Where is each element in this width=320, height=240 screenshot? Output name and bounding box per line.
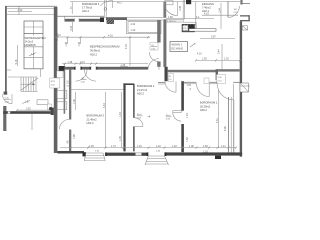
wc fixtures left <box>57 91 67 99</box>
wall: top wall step left <box>57 15 105 17</box>
wall: b4 right partition <box>104 0 106 17</box>
door arc bueroraum4 <box>101 0 113 6</box>
dim 4.33 rot <box>129 37 131 66</box>
wall: vestibule bottom wall segments <box>184 81 197 83</box>
dim rot 4.31 b1 <box>218 90 220 148</box>
door arc below <box>165 81 176 92</box>
svg-text:1.08: 1.08 <box>189 145 194 148</box>
wall: top wall under bueroraum4 <box>65 19 75 22</box>
wall: b2/b1 wall lower <box>181 124 184 152</box>
svg-text:3.42: 3.42 <box>18 9 23 12</box>
svg-text:5.18: 5.18 <box>15 59 18 64</box>
wall: corridor wall vertical <box>69 70 71 120</box>
dim line above hall doors <box>62 63 148 65</box>
dim 5.18 rot left <box>17 45 19 66</box>
wall: shaft column left <box>123 83 125 151</box>
wall: block top middle <box>186 0 191 4</box>
svg-text:1.40: 1.40 <box>156 145 161 148</box>
wall: eingang bottom wall <box>189 29 216 32</box>
wall: shaft column right upper <box>133 84 134 118</box>
svg-text:1.36: 1.36 <box>73 99 76 104</box>
wire: thin vertical below wall <box>31 114 33 130</box>
svg-text:5.06: 5.06 <box>224 126 227 131</box>
dim 1.30 rot <box>80 37 82 44</box>
svg-text:1.73: 1.73 <box>111 145 116 148</box>
niche box under corner <box>57 71 63 78</box>
svg-text:1.02: 1.02 <box>224 58 229 61</box>
wall: dark block bottom right <box>215 156 221 159</box>
wall: left-bottom exterior vertical <box>3 106 6 131</box>
window jamb box right of wall <box>242 26 247 30</box>
svg-text:BÜRORAUM 2: BÜRORAUM 2 <box>137 84 155 88</box>
wall: vertical wall wohn/meeting <box>157 20 160 43</box>
svg-text:2.10: 2.10 <box>80 61 85 64</box>
svg-text:4.16: 4.16 <box>108 34 113 37</box>
svg-text:3.87: 3.87 <box>211 36 216 39</box>
wall: stm lintel band with label <box>166 19 183 22</box>
wall: partition left of wc <box>64 70 66 114</box>
door jamb ticks <box>75 66 77 70</box>
svg-text:1.30: 1.30 <box>78 41 81 46</box>
door arc into bueroraum1 left <box>197 84 210 97</box>
wall: annex wall foot <box>4 92 8 95</box>
wall: bottom wall mid part <box>105 153 148 156</box>
wall: b2/b1 wall upper <box>181 81 184 111</box>
wall: right exterior top <box>240 0 242 5</box>
svg-text:2.05: 2.05 <box>179 5 182 10</box>
wall: main building left exterior wall <box>54 7 58 153</box>
svg-text:EG.H0H2: EG.H0H2 <box>172 47 184 51</box>
svg-text:1.38: 1.38 <box>65 41 68 46</box>
door label box hall right <box>168 74 174 82</box>
svg-text:3.44: 3.44 <box>218 49 221 54</box>
door arc b1->b2 <box>173 113 182 122</box>
svg-text:1.78: 1.78 <box>119 136 122 141</box>
fixture: wc sink top <box>165 1 174 5</box>
dark jamb square <box>49 107 52 110</box>
furniture: wintergarten table group <box>24 21 43 69</box>
svg-text:H02.4: H02.4 <box>87 121 94 125</box>
annotation arrow near stairs <box>22 101 30 104</box>
svg-text:21.07m2: 21.07m2 <box>137 88 148 92</box>
svg-text:1.35: 1.35 <box>89 145 94 148</box>
dim rot 4.43 <box>105 92 107 148</box>
svg-text:36.96m2: 36.96m2 <box>90 49 101 53</box>
dim 3.42 top-left <box>8 11 32 13</box>
svg-text:BESPRECHUNGSRAUM: BESPRECHUNGSRAUM <box>90 45 119 49</box>
wire: top edge line <box>70 1 228 3</box>
tick on left wall <box>7 69 11 71</box>
svg-text:40.2: 40.2 <box>117 2 122 5</box>
svg-text:1.40: 1.40 <box>119 112 122 117</box>
wall: top wall right part <box>106 17 127 20</box>
door jamb caps <box>74 67 75 70</box>
svg-text:14.2m2: 14.2m2 <box>25 40 34 44</box>
wall: closet bottom stub <box>158 81 165 83</box>
wall: step vertical <box>216 69 218 80</box>
door arc b3->b2 <box>134 118 143 127</box>
small door label box <box>204 78 209 84</box>
wall: middle wall segment B <box>81 67 92 70</box>
svg-text:1.98: 1.98 <box>73 134 76 139</box>
dim line y60 right <box>196 59 240 61</box>
window slot in bottom wall <box>136 153 142 156</box>
svg-text:1.81: 1.81 <box>187 84 192 87</box>
dim 90 rot small <box>71 2 73 14</box>
wall: hatched jamb block <box>107 19 115 24</box>
dim 2.43 vertical <box>72 22 74 32</box>
door arc into bueroraum1 right <box>217 84 233 100</box>
wall: eingang left wall line <box>195 2 197 29</box>
door leaf b2 <box>173 111 182 113</box>
wall: dark block left steps <box>83 152 87 156</box>
wall: bottom-left horizontal wall <box>3 111 50 114</box>
steps 1 (left) <box>84 153 105 161</box>
wall: door frame block left of bueroraum4 door <box>100 17 104 22</box>
svg-text:2.43: 2.43 <box>70 25 73 30</box>
svg-text:STG: STG <box>51 81 56 83</box>
door label box vestibule <box>217 75 226 84</box>
wall: middle wall segment C <box>96 67 148 70</box>
label box on left wall (stg) <box>50 78 60 88</box>
wall: bottom wall left part <box>57 151 84 154</box>
door arc meeting->wohn <box>149 52 158 62</box>
svg-text:4.43: 4.43 <box>103 103 106 108</box>
dim 3.52 <box>17 109 54 111</box>
svg-text:2.10: 2.10 <box>56 34 61 37</box>
dim 1.38 rot <box>67 37 69 44</box>
svg-text:BÜRORAUM 4: BÜRORAUM 4 <box>82 2 100 6</box>
white niche box <box>47 104 51 109</box>
steps 2 (center) <box>145 156 169 165</box>
wall: dark hatched block (el) <box>182 24 195 32</box>
wall: wc2/eingang partition <box>182 0 184 19</box>
dim 2.44 vertical eingang <box>220 3 222 29</box>
dim 2.10 <box>55 36 67 38</box>
window box right wall <box>240 83 249 92</box>
wire: window sill line wintergarten <box>7 14 54 16</box>
svg-text:BÜRORAUM 1: BÜRORAUM 1 <box>200 101 218 105</box>
svg-text:H02.4: H02.4 <box>82 9 89 13</box>
dim rot 1.36 <box>75 92 77 110</box>
stairs outside left <box>8 76 38 78</box>
svg-text:1.59: 1.59 <box>203 145 208 148</box>
svg-text:H02.2: H02.2 <box>90 53 97 57</box>
svg-text:H02.2: H02.2 <box>200 108 207 112</box>
wall: corner block <box>51 108 54 115</box>
svg-text:17.76m2: 17.76m2 <box>82 6 93 10</box>
dim 1.66 <box>166 18 214 20</box>
svg-text:4.19: 4.19 <box>204 12 209 15</box>
svg-text:1.52: 1.52 <box>186 137 189 142</box>
wall: middle wall (hall top) segment A <box>65 67 76 70</box>
svg-text:4.31: 4.31 <box>216 118 219 123</box>
wall: right exterior wall main <box>240 21 242 156</box>
svg-text:1.41: 1.41 <box>221 145 226 148</box>
wire: wc right room bottom wall <box>183 21 196 23</box>
dim 3.87 top right <box>200 38 235 40</box>
wire: meeting room right wall bottom join <box>158 67 160 70</box>
svg-text:1.33: 1.33 <box>203 150 208 153</box>
svg-text:3.52: 3.52 <box>26 107 31 110</box>
svg-text:21.49m2: 21.49m2 <box>87 117 98 121</box>
wall: right jamb bracket <box>240 15 250 16</box>
svg-text:2.44: 2.44 <box>218 7 221 12</box>
wall: shaft column right lower <box>133 127 134 152</box>
wall: band right to ext <box>218 69 240 71</box>
svg-text:4.33: 4.33 <box>125 44 128 49</box>
annotation arrow in table <box>29 53 36 57</box>
door arc meeting room right <box>148 59 159 70</box>
door arc wc <box>164 2 178 16</box>
door: main entrance leaf + arc <box>227 1 229 17</box>
svg-text:1.40: 1.40 <box>131 29 136 32</box>
wall: middle wall corner block <box>59 66 65 71</box>
door arcs: double doors hall <box>76 70 88 82</box>
svg-text:1.18: 1.18 <box>172 145 177 148</box>
rect outline near wall <box>37 100 48 105</box>
wire: bueroraum3 top line <box>70 88 125 90</box>
dim chain bottom y147.6 <box>60 147 236 149</box>
door label box in that wall <box>150 43 158 51</box>
dim 4.19 <box>202 14 238 16</box>
dim 4.16 <box>67 36 150 38</box>
svg-text:1.66: 1.66 <box>168 16 173 19</box>
svg-text:WINTERGARTEN: WINTERGARTEN <box>25 36 46 40</box>
svg-text:1.40: 1.40 <box>137 145 142 148</box>
svg-text:4.15: 4.15 <box>197 53 202 56</box>
wall: b1 right inner wall lines <box>228 97 230 154</box>
svg-text:WOHN 1: WOHN 1 <box>172 43 183 47</box>
dim rot center <box>121 92 123 148</box>
svg-text:7.40m2: 7.40m2 <box>202 6 211 10</box>
svg-text:1.50: 1.50 <box>202 58 207 61</box>
wall: band to step <box>168 70 218 73</box>
svg-text:1.38: 1.38 <box>68 61 73 64</box>
wall: shaft bridge <box>123 83 134 85</box>
table: besprechungsraum skylight rect <box>127 20 162 33</box>
wall: wc area left wall vertical <box>163 2 166 18</box>
label box WOHN 1 <box>170 42 188 52</box>
wall: left annex exterior wall <box>5 6 7 94</box>
svg-text:26.29m2: 26.29m2 <box>200 104 211 108</box>
svg-text:H02.2: H02.2 <box>137 92 144 96</box>
svg-text:2.18/2.10: 2.18/2.10 <box>167 21 177 23</box>
svg-text:H0.EBOK: H0.EBOK <box>25 43 37 47</box>
svg-text:EINGANG: EINGANG <box>202 2 214 6</box>
wall: jog vertical right of hall <box>165 67 168 81</box>
wall: bottom wall right part <box>165 152 242 155</box>
svg-text:BÜRORAUM 3: BÜRORAUM 3 <box>87 114 105 118</box>
wire: annex top wall lines <box>5 5 57 7</box>
svg-text:4.42: 4.42 <box>131 23 136 26</box>
label slot in block <box>183 26 188 31</box>
annotation arrow right of box <box>190 44 195 48</box>
door arc bottom-left <box>3 94 13 104</box>
svg-text:1.40: 1.40 <box>186 113 189 118</box>
